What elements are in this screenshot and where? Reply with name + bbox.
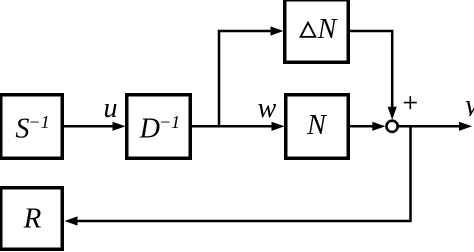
wire D to N [191, 125, 273, 128]
arrowhead into D1 [113, 122, 126, 131]
wire DeltaN to summing junction [349, 31, 392, 109]
block DeltaN [285, 0, 349, 62]
wire S to D [63, 125, 114, 128]
block D^-1 [127, 95, 191, 159]
output arrowhead [459, 122, 472, 131]
arrowhead into summing junction [372, 122, 385, 131]
arrowhead into N [272, 122, 285, 131]
plus sign [404, 96, 417, 109]
svg-text:u: u [104, 93, 118, 124]
block N [286, 95, 349, 159]
svg-text:w: w [258, 93, 277, 124]
block R [1, 188, 63, 250]
block S^-1 [1, 95, 63, 159]
wire feedback down and left to R [76, 126, 411, 221]
summing junction circle [387, 121, 398, 132]
wire summing junction to output y [399, 125, 461, 128]
triangle of DeltaN [301, 23, 316, 37]
arrowhead down into summing junction [388, 107, 397, 120]
svg-text:N: N [306, 110, 327, 141]
svg-text:R: R [23, 203, 42, 235]
arrowhead into R [65, 216, 78, 225]
svg-text:N: N [317, 14, 338, 45]
wire branch up to DeltaN [219, 31, 272, 128]
wire N to summing junction [349, 125, 374, 128]
arrowhead into DeltaN [271, 26, 284, 35]
